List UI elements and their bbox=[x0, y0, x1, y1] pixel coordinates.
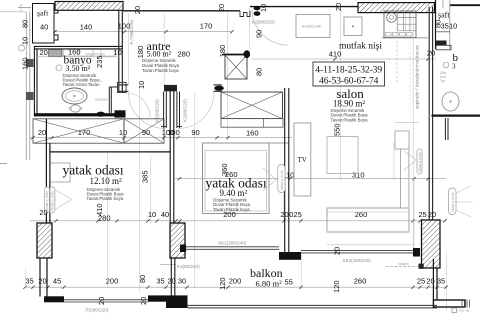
svg-text:10: 10 bbox=[148, 210, 156, 219]
door leaf bedroom2 bbox=[176, 92, 178, 129]
window left bbox=[46, 187, 48, 213]
svg-text:120: 120 bbox=[332, 280, 341, 293]
svg-text:20: 20 bbox=[97, 297, 106, 305]
klima label between rooms bbox=[278, 165, 285, 193]
svg-text:Çamaşır: Çamaşır bbox=[95, 98, 109, 102]
X wardrobe bedroom2 bbox=[221, 92, 283, 119]
SK1 sliding door bbox=[180, 245, 186, 253]
svg-text:180: 180 bbox=[136, 46, 145, 59]
dimension lines bbox=[55, 31, 232, 33]
svg-text:410: 410 bbox=[329, 50, 342, 59]
sofa bbox=[327, 208, 409, 232]
svg-text:10: 10 bbox=[114, 48, 122, 57]
svg-text:35: 35 bbox=[437, 277, 445, 286]
svg-text:K2(90/220): K2(90/220) bbox=[252, 20, 275, 25]
svg-text:20: 20 bbox=[139, 297, 148, 305]
banyo door bbox=[96, 112, 105, 117]
svg-text:3: 3 bbox=[452, 63, 456, 71]
svg-text:200: 200 bbox=[223, 210, 236, 219]
svg-text:20: 20 bbox=[39, 208, 47, 217]
svg-text:K,Y(90/220): K,Y(90/220) bbox=[129, 20, 134, 45]
wall below mid column bbox=[170, 258, 172, 296]
svg-text:10: 10 bbox=[119, 128, 127, 137]
bottom wall L bbox=[148, 295, 166, 301]
sink and stove unit bbox=[384, 11, 416, 38]
svg-text:35: 35 bbox=[25, 277, 33, 286]
top-left corner marks bbox=[18, 7, 31, 9]
svg-text:80: 80 bbox=[138, 275, 147, 283]
svg-text:280: 280 bbox=[98, 214, 111, 223]
banyo fixtures bbox=[49, 50, 62, 57]
svg-text:10: 10 bbox=[137, 81, 146, 89]
bedroom1 bottom wall left bbox=[44, 296, 64, 302]
svg-text:160: 160 bbox=[21, 57, 30, 70]
fridge bbox=[296, 15, 330, 38]
counter edge bbox=[382, 37, 428, 39]
svg-text:550: 550 bbox=[333, 123, 342, 136]
bedroom2 bed bbox=[203, 143, 270, 214]
party wall right bbox=[428, 7, 430, 221]
bedroom2 right wall bbox=[284, 88, 286, 252]
svg-text:BUZDOLABI: BUZDOLABI bbox=[302, 25, 321, 29]
hatch column left bbox=[37, 223, 52, 258]
svg-text:40: 40 bbox=[161, 210, 169, 219]
drain marker bbox=[386, 265, 418, 267]
banyo door arc bbox=[126, 93, 150, 117]
svg-text:200: 200 bbox=[229, 277, 242, 286]
svg-text:şaft: şaft bbox=[37, 9, 49, 18]
bedroom1 left wall bbox=[45, 119, 47, 187]
svg-text:aspiratör / havalandırma bacas: aspiratör / havalandırma bacası bbox=[415, 45, 420, 109]
svg-text:SK1(200/240): SK1(200/240) bbox=[218, 241, 247, 246]
svg-text:140: 140 bbox=[80, 22, 93, 31]
svg-text:20: 20 bbox=[167, 277, 175, 286]
dresser 160 bbox=[221, 119, 283, 128]
top-right corner wall bbox=[450, 4, 480, 6]
svg-text:SK2(260/240): SK2(260/240) bbox=[343, 258, 372, 263]
svg-text:12.10 m²: 12.10 m² bbox=[90, 176, 123, 186]
balcony right wall bbox=[432, 259, 434, 300]
svg-text:40: 40 bbox=[40, 23, 48, 32]
svg-text:3.50 m²: 3.50 m² bbox=[66, 64, 91, 73]
apartment numbers box bbox=[313, 62, 385, 86]
dimension ticks bbox=[53, 30, 56, 33]
X void band left bbox=[33, 119, 124, 143]
svg-text:20: 20 bbox=[426, 277, 434, 286]
svg-text:Tavan:Plastik boya: Tavan:Plastik boya bbox=[142, 68, 179, 73]
svg-text:10: 10 bbox=[449, 21, 457, 30]
svg-text:260: 260 bbox=[354, 277, 367, 286]
svg-text:20: 20 bbox=[428, 210, 436, 219]
svg-text:160: 160 bbox=[246, 128, 259, 137]
svg-text:280: 280 bbox=[178, 50, 191, 59]
svg-text:35: 35 bbox=[441, 21, 449, 30]
svg-text:260: 260 bbox=[355, 210, 368, 219]
svg-text:55: 55 bbox=[285, 278, 293, 287]
tv unit bbox=[294, 123, 311, 196]
svg-text:klima iç ünite: klima iç ünite bbox=[51, 191, 55, 211]
svg-text:20: 20 bbox=[334, 3, 343, 11]
svg-text:46-53-60-67-74: 46-53-60-67-74 bbox=[319, 75, 379, 86]
svg-text:20: 20 bbox=[40, 48, 48, 57]
svg-text:K4(80/240): K4(80/240) bbox=[177, 264, 200, 269]
svg-text:20: 20 bbox=[133, 6, 142, 14]
svg-text:200: 200 bbox=[106, 277, 119, 286]
bedroom1 right wall bbox=[169, 88, 171, 223]
svg-text:385: 385 bbox=[141, 170, 150, 183]
balcony front rail bbox=[188, 304, 438, 306]
svg-text:30: 30 bbox=[178, 277, 186, 286]
svg-text:süzgeç: süzgeç bbox=[398, 262, 409, 266]
klima unit labels outside bbox=[45, 187, 50, 213]
window P(200/220) bbox=[64, 299, 148, 301]
hatch column mid bbox=[170, 223, 185, 258]
svg-text:P(200/220): P(200/220) bbox=[86, 307, 109, 312]
svg-text:TV: TV bbox=[298, 156, 307, 164]
svg-text:25: 25 bbox=[417, 277, 425, 286]
wall below left column bbox=[39, 258, 41, 297]
svg-text:20: 20 bbox=[427, 49, 435, 58]
banyo walls bbox=[34, 45, 122, 47]
hatched wall band top-left bbox=[55, 2, 123, 11]
T wall balcony bbox=[279, 252, 301, 260]
bedroom1 top wall bbox=[50, 151, 171, 153]
svg-text:80: 80 bbox=[255, 68, 264, 76]
neighbour shaft right bbox=[435, 0, 437, 49]
svg-text:6.80 m²: 6.80 m² bbox=[256, 279, 283, 289]
svg-text:235: 235 bbox=[95, 55, 104, 68]
svg-text:20: 20 bbox=[38, 277, 46, 286]
kitchen top wall bbox=[250, 6, 359, 8]
klima label salon right bbox=[417, 149, 422, 174]
svg-text:klima iç ünite: klima iç ünite bbox=[280, 170, 284, 190]
svg-text:170: 170 bbox=[200, 22, 213, 31]
svg-text:20: 20 bbox=[333, 247, 342, 255]
svg-text:20: 20 bbox=[38, 128, 46, 137]
svg-text:9.40 m²: 9.40 m² bbox=[220, 188, 248, 198]
svg-text:90: 90 bbox=[255, 30, 264, 38]
svg-text:klima iç ünite: klima iç ünite bbox=[418, 152, 422, 172]
dishwasher bbox=[344, 17, 362, 36]
antre top wall bbox=[123, 10, 240, 12]
svg-text:25: 25 bbox=[418, 210, 426, 219]
svg-text:35: 35 bbox=[156, 277, 164, 286]
door K2 top bbox=[240, 11, 250, 17]
svg-text:klima iç ünite: klima iç ünite bbox=[451, 192, 455, 212]
hatch column right bbox=[422, 220, 441, 268]
hatched wall band top-right bbox=[358, 3, 435, 13]
coffee table bbox=[327, 137, 358, 174]
svg-text:80: 80 bbox=[21, 20, 30, 28]
SK2 sliding door bbox=[301, 249, 413, 251]
svg-text:Tavan:Plastik boya: Tavan:Plastik boya bbox=[87, 196, 124, 201]
svg-text:mutfak nişi: mutfak nişi bbox=[339, 41, 382, 52]
svg-text:20: 20 bbox=[217, 4, 226, 12]
svg-text:K2(90/220): K2(90/220) bbox=[183, 99, 188, 122]
svg-text:Tavan:Asma Tavan: Tavan:Asma Tavan bbox=[63, 82, 101, 87]
svg-text:4-11-18-25-32-39: 4-11-18-25-32-39 bbox=[315, 64, 382, 75]
svg-text:Tavan:Plastik Boya: Tavan:Plastik Boya bbox=[331, 117, 369, 122]
svg-text:P/C YB: P/C YB bbox=[459, 309, 471, 313]
svg-text:45: 45 bbox=[53, 277, 61, 286]
hall bottom wall bbox=[119, 84, 128, 86]
svg-text:10: 10 bbox=[21, 37, 30, 45]
dimension extension lines bbox=[29, 7, 31, 118]
klima label neighbour bbox=[449, 188, 457, 215]
svg-text:20: 20 bbox=[280, 210, 288, 219]
door leaf bedroom1 bbox=[163, 92, 165, 129]
svg-text:18.90 m²: 18.90 m² bbox=[333, 99, 366, 109]
svg-text:025: 025 bbox=[289, 210, 302, 219]
bedroom1 side furniture bbox=[51, 163, 71, 182]
svg-text:şaft: şaft bbox=[438, 11, 450, 20]
svg-text:120: 120 bbox=[218, 277, 227, 290]
shaft room walls bbox=[33, 4, 55, 44]
laundry nook wall bbox=[108, 87, 110, 113]
svg-text:Tav: Tav bbox=[440, 79, 446, 83]
svg-text:90: 90 bbox=[191, 128, 199, 137]
svg-text:10: 10 bbox=[286, 171, 294, 180]
svg-text:260: 260 bbox=[225, 170, 238, 179]
left party wall bbox=[25, 12, 27, 160]
column X antre right bbox=[225, 55, 247, 79]
